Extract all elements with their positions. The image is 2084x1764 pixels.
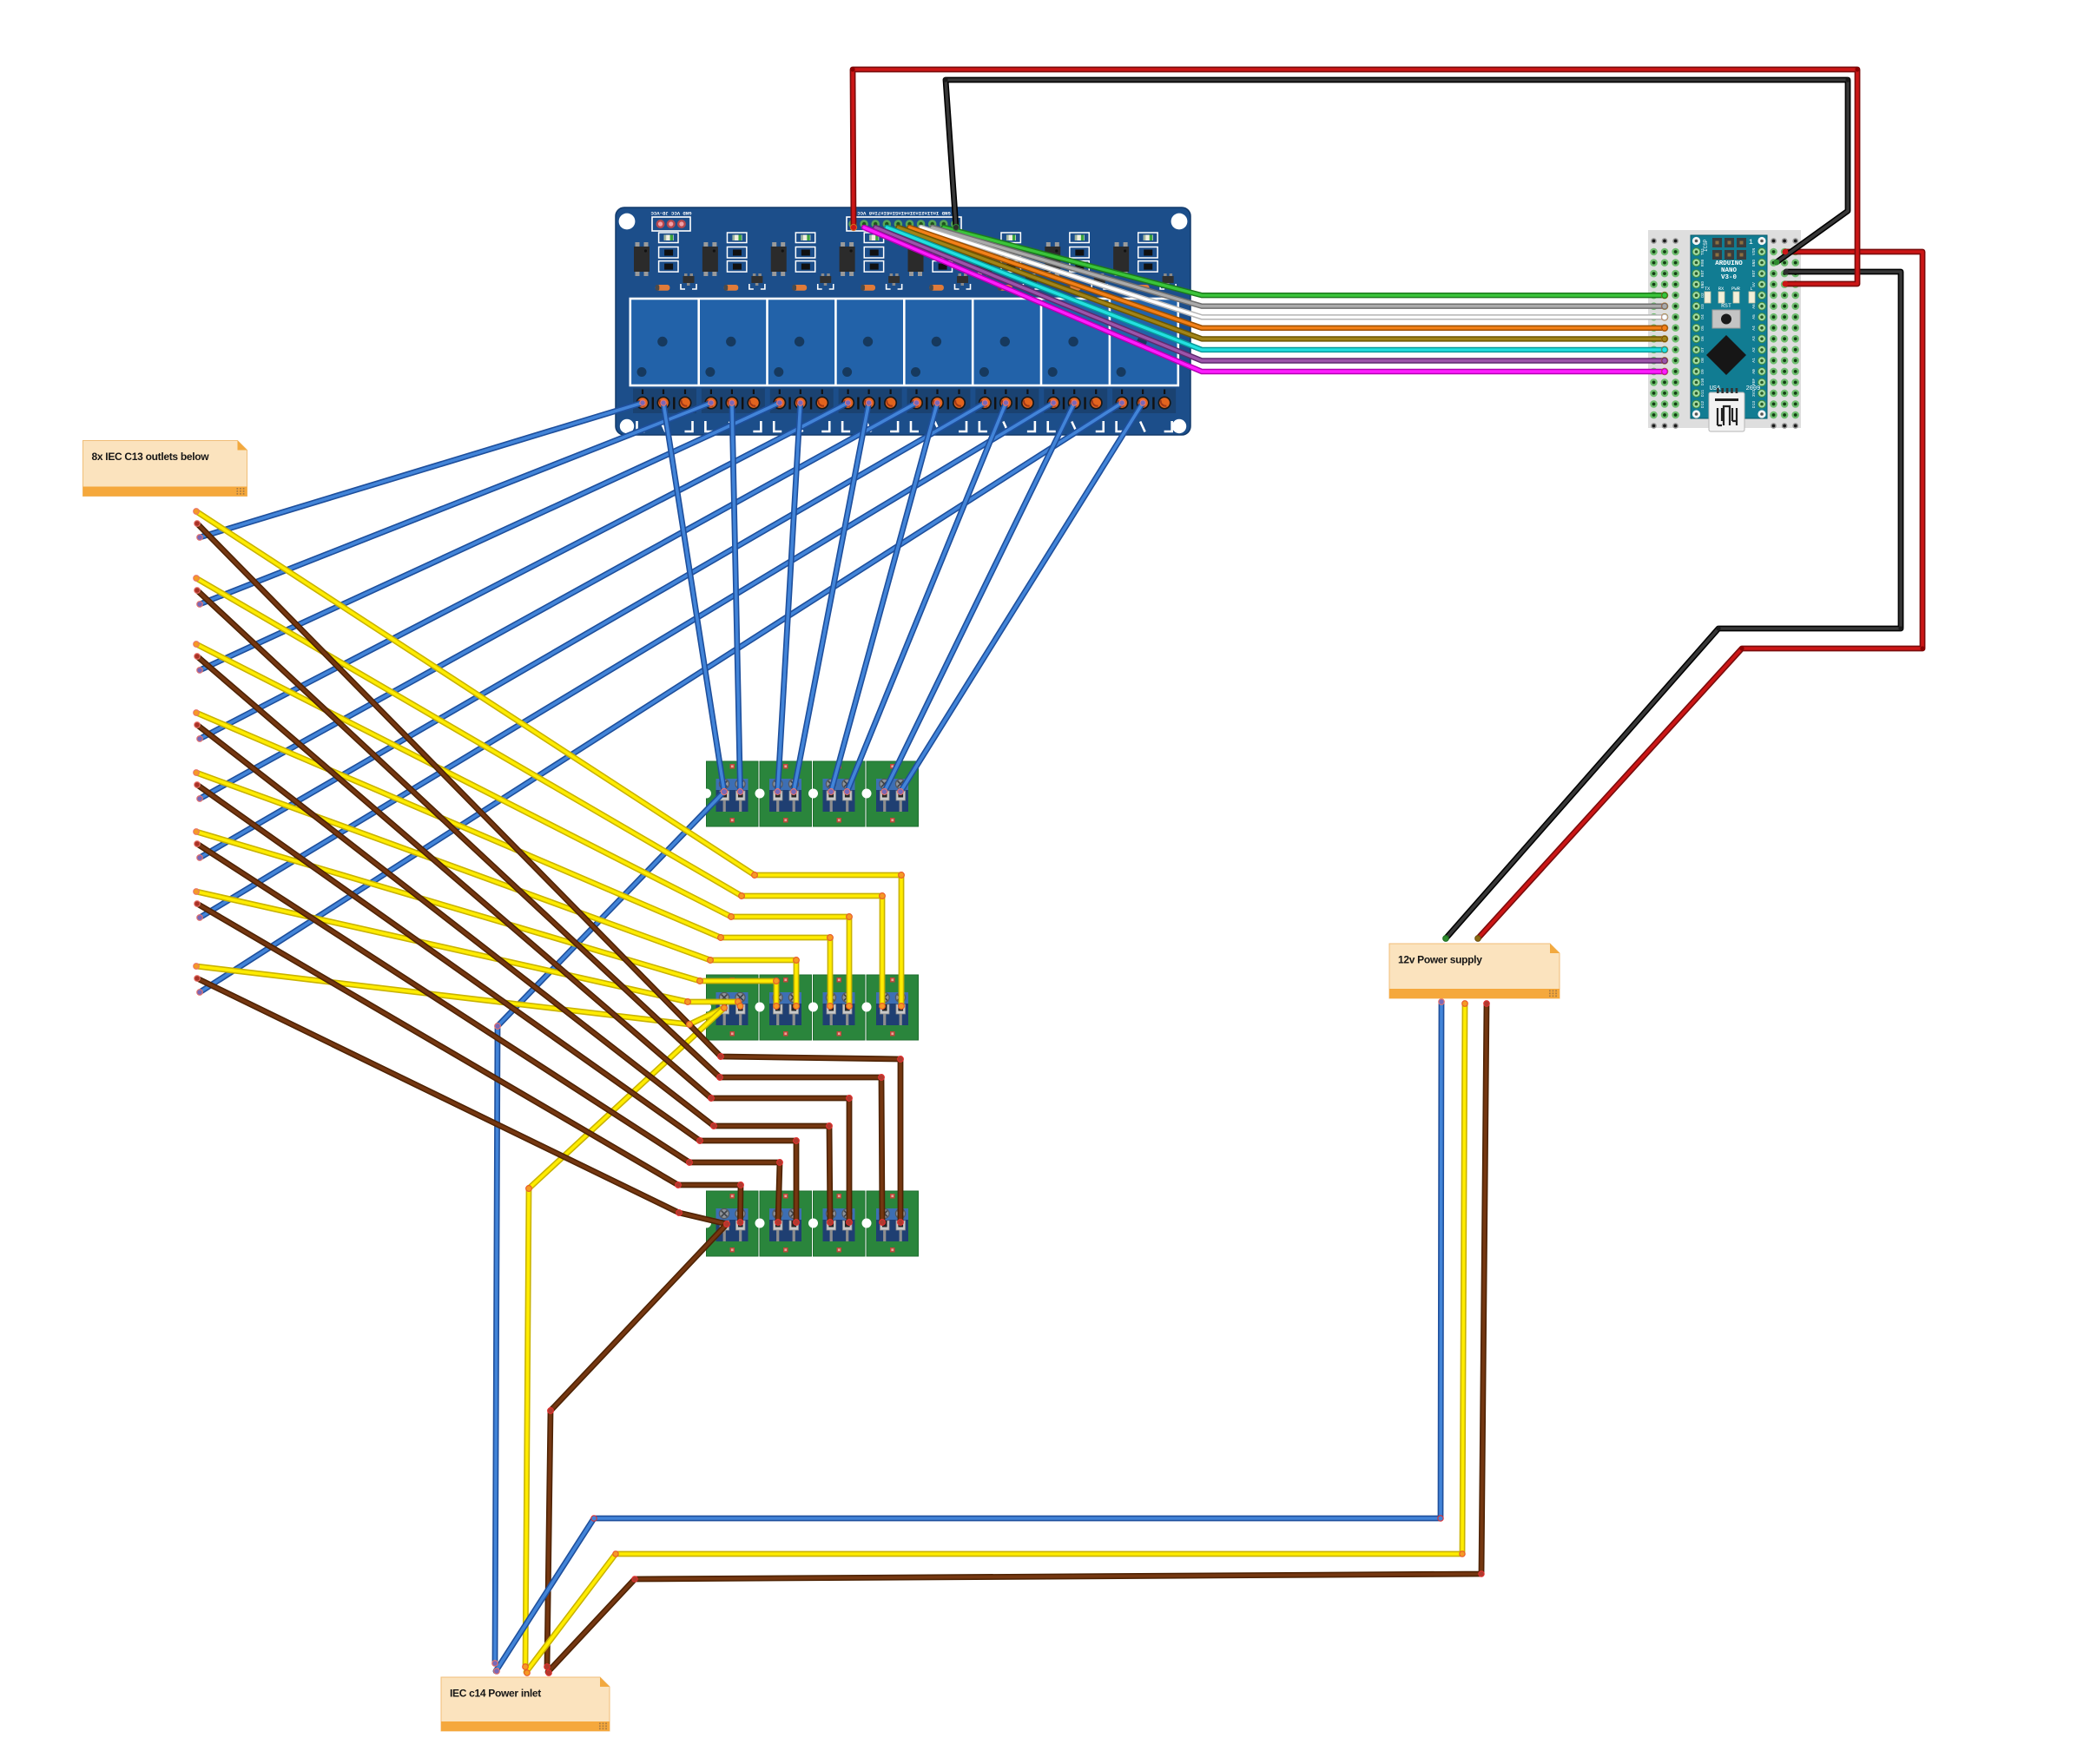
screw terminal PCB row2-4 xyxy=(862,975,919,1040)
svg-text:12v Power supply: 12v Power supply xyxy=(1398,954,1482,966)
wire outlet 8 earth (brown) xyxy=(197,978,727,1224)
8-channel relay module board xyxy=(616,207,1190,435)
wire relay ch6 switched output (blue) to terminal row1 xyxy=(847,403,1006,792)
relay output screw terminal block channel 1 xyxy=(633,389,696,432)
screw terminal PCB row2-2 xyxy=(755,975,812,1040)
wire outlet 2 earth (brown) xyxy=(197,590,882,1222)
svg-text:D11: D11 xyxy=(1700,390,1705,398)
wire outlet 5 earth (brown) xyxy=(197,785,796,1222)
wire outlet 7 neutral (yellow) xyxy=(196,892,741,1006)
wire relay ch1 switched output (blue) to terminal row1 xyxy=(663,403,724,792)
wire outlet 5 neutral (yellow) xyxy=(196,773,796,1006)
wire outlet 4 live (blue) to relay xyxy=(200,403,848,739)
screw terminal PCB row3-4 xyxy=(862,1191,919,1256)
svg-text:PWR: PWR xyxy=(1731,286,1741,292)
svg-text:A5: A5 xyxy=(1751,314,1757,319)
screw terminal PCB row1-1 xyxy=(702,761,758,826)
svg-text:USA: USA xyxy=(1710,385,1721,392)
wire PSU 12V+ (red) to VIN xyxy=(1478,252,1922,938)
wire outlet 6 neutral (yellow) xyxy=(196,832,776,1006)
wire PSU mains blue xyxy=(496,1002,1441,1671)
wire In4 signal (orange) D5 xyxy=(910,227,1665,328)
relay output screw terminal block channel 5 xyxy=(907,389,971,432)
wire relay ch8 switched output (blue) to terminal row1 xyxy=(900,403,1143,792)
control pin header GND In1-In8 VCC xyxy=(847,217,961,231)
svg-text:D13: D13 xyxy=(1751,401,1757,409)
relay bank K1-K8 xyxy=(630,299,1178,385)
wire outlet 1 neutral (yellow) xyxy=(196,511,901,1006)
wire PSU mains brown xyxy=(548,1004,1487,1672)
svg-text:RST: RST xyxy=(1721,303,1731,309)
wire outlet 6 earth (brown) xyxy=(197,844,780,1222)
svg-text:A0: A0 xyxy=(1751,369,1757,374)
relay output screw terminal block channel 4 xyxy=(839,389,902,432)
relay channel 4 opto/driver components xyxy=(840,233,902,291)
Arduino Nano V3.0 U1 xyxy=(1691,235,1767,431)
svg-text:D7: D7 xyxy=(1700,347,1705,352)
ICSP header xyxy=(1712,238,1722,247)
screw terminal PCB row3-1 xyxy=(702,1191,758,1256)
relay channel 6 opto/driver components xyxy=(976,233,1039,291)
svg-text:L: L xyxy=(1750,286,1752,292)
svg-text:D9: D9 xyxy=(1700,369,1705,374)
note: outlets xyxy=(83,441,247,497)
perfboard under Arduino Nano xyxy=(1648,230,1801,429)
relay channel 8 opto/driver components xyxy=(1113,233,1176,291)
wire relay ch7 switched output (blue) to terminal row1 xyxy=(885,403,1075,792)
svg-text:RX: RX xyxy=(1718,286,1725,292)
screw terminal PCB row1-4 xyxy=(862,761,919,826)
wire outlet 2 neutral (yellow) xyxy=(196,578,882,1006)
svg-text:D4: D4 xyxy=(1700,314,1705,319)
wire outlet 7 earth (brown) xyxy=(197,904,741,1222)
wire outlet 8 live (blue) to relay xyxy=(200,403,1122,992)
screw terminal PCB row3-3 xyxy=(808,1191,865,1256)
svg-text:D6: D6 xyxy=(1700,336,1705,341)
svg-text:8x IEC C13 outlets below: 8x IEC C13 outlets below xyxy=(92,451,210,463)
relay output screw terminal block channel 8 xyxy=(1112,389,1176,432)
wire PSU mains yellow xyxy=(526,1004,1465,1672)
wire In3 signal (white) D4 xyxy=(921,227,1665,317)
wire relay ch3 switched output (blue) to terminal row1 xyxy=(778,403,801,792)
wire outlet 1 live (blue) to relay xyxy=(200,403,643,537)
relay channel 3 opto/driver components xyxy=(771,233,834,291)
svg-text:A1: A1 xyxy=(1751,358,1757,363)
svg-text:REF: REF xyxy=(1751,378,1757,386)
screw terminal PCB row2-1 xyxy=(702,975,758,1040)
relay channel 2 opto/driver components xyxy=(702,233,765,291)
wire outlet 5 live (blue) to relay xyxy=(200,403,917,799)
wire mains live riser (blue) from inlet xyxy=(495,792,724,1663)
wire outlet 3 live (blue) to relay xyxy=(200,403,780,670)
wire relay ch5 switched output (blue) to terminal row1 xyxy=(831,403,938,792)
wire outlet 3 earth (brown) xyxy=(197,656,849,1222)
relay channel 1 opto/driver components xyxy=(634,233,696,291)
wire outlet 3 neutral (yellow) xyxy=(196,644,849,1006)
wire In7 signal (purple) D8 xyxy=(875,227,1665,361)
MCU chip xyxy=(1706,335,1746,375)
wire In1 signal (green) D2 xyxy=(944,227,1665,295)
JD-VCC jumper header xyxy=(652,217,690,231)
note: power supply xyxy=(1389,944,1560,998)
relay output screw terminal block channel 3 xyxy=(770,389,834,432)
wire outlet 8 neutral (yellow) xyxy=(196,966,724,1024)
svg-text:RST: RST xyxy=(1700,270,1705,278)
wire mains neutral riser (yellow) from inlet xyxy=(525,1008,724,1667)
wire In5 signal (olive) D6 xyxy=(898,227,1665,339)
svg-text:ICSP: ICSP xyxy=(1703,239,1709,252)
screw terminal PCB row3-2 xyxy=(755,1191,812,1256)
wire In6 signal (cyan) D7 xyxy=(887,227,1665,350)
wire relay ch2 switched output (blue) to terminal row1 xyxy=(732,403,741,792)
svg-text:RST: RST xyxy=(1751,270,1757,278)
wire junctions and end caps xyxy=(640,400,645,405)
relay channel 5 opto/driver components xyxy=(908,233,971,291)
svg-text:GND: GND xyxy=(1751,260,1757,267)
svg-text:D12: D12 xyxy=(1700,401,1705,409)
svg-text:A2: A2 xyxy=(1751,347,1757,352)
wire In2 signal (gray) D3 xyxy=(933,227,1665,306)
svg-text:VIN: VIN xyxy=(1751,248,1757,256)
svg-text:A3: A3 xyxy=(1751,336,1757,341)
wire outlet 1 earth (brown) xyxy=(197,523,900,1222)
svg-text:V3-0: V3-0 xyxy=(1721,274,1738,281)
wire outlet 4 neutral (yellow) xyxy=(196,713,830,1006)
svg-text:ARDUINO: ARDUINO xyxy=(1715,260,1743,267)
note: power inlet xyxy=(441,1677,610,1731)
relay output screw terminal block channel 7 xyxy=(1044,389,1107,432)
svg-text:TX: TX xyxy=(1705,286,1711,292)
wire PSU GND (black) to nano GND xyxy=(1446,272,1901,938)
svg-text:D10: D10 xyxy=(1700,378,1705,386)
relay channel 7 opto/driver components xyxy=(1045,233,1107,291)
svg-text:GND In1In2In3In4In5In6In7In8 V: GND In1In2In3In4In5In6In7In8 VCC xyxy=(857,210,951,216)
svg-text:RX0: RX0 xyxy=(1700,260,1705,267)
svg-text:IEC c14 Power inlet: IEC c14 Power inlet xyxy=(450,1688,541,1700)
svg-text:A6: A6 xyxy=(1751,304,1757,309)
relay output screw terminal block channel 2 xyxy=(702,389,765,432)
svg-text:D8: D8 xyxy=(1700,358,1705,363)
svg-text:2009: 2009 xyxy=(1746,385,1761,392)
wire relay GND (black) to nano GND xyxy=(946,80,1848,262)
svg-text:A4: A4 xyxy=(1751,326,1757,331)
wire outlet 4 earth (brown) xyxy=(197,725,830,1222)
svg-text:D5: D5 xyxy=(1700,326,1705,331)
svg-text:1: 1 xyxy=(1749,239,1753,247)
svg-text:D3: D3 xyxy=(1700,304,1705,309)
screw terminal PCB row2-3 xyxy=(808,975,865,1040)
wire In8 signal (magenta) D9 xyxy=(864,227,1665,372)
svg-text:GND VCC JD-VCC: GND VCC JD-VCC xyxy=(650,210,692,216)
wire outlet 2 live (blue) to relay xyxy=(200,403,711,604)
wire outlet 6 live (blue) to relay xyxy=(200,403,985,858)
relay output screw terminal block channel 6 xyxy=(975,389,1039,432)
svg-text:NANO: NANO xyxy=(1721,267,1738,274)
wire mains earth riser (brown) from inlet xyxy=(547,1224,727,1667)
wire outlet 7 live (blue) to relay xyxy=(200,403,1053,918)
wire relay VCC (red) from nano 5V xyxy=(853,69,1857,284)
mini-USB connector xyxy=(1709,392,1744,431)
screw terminal PCB row1-2 xyxy=(755,761,812,826)
wire relay ch4 switched output (blue) to terminal row1 xyxy=(794,403,869,792)
screw terminal PCB row1-3 xyxy=(808,761,865,826)
